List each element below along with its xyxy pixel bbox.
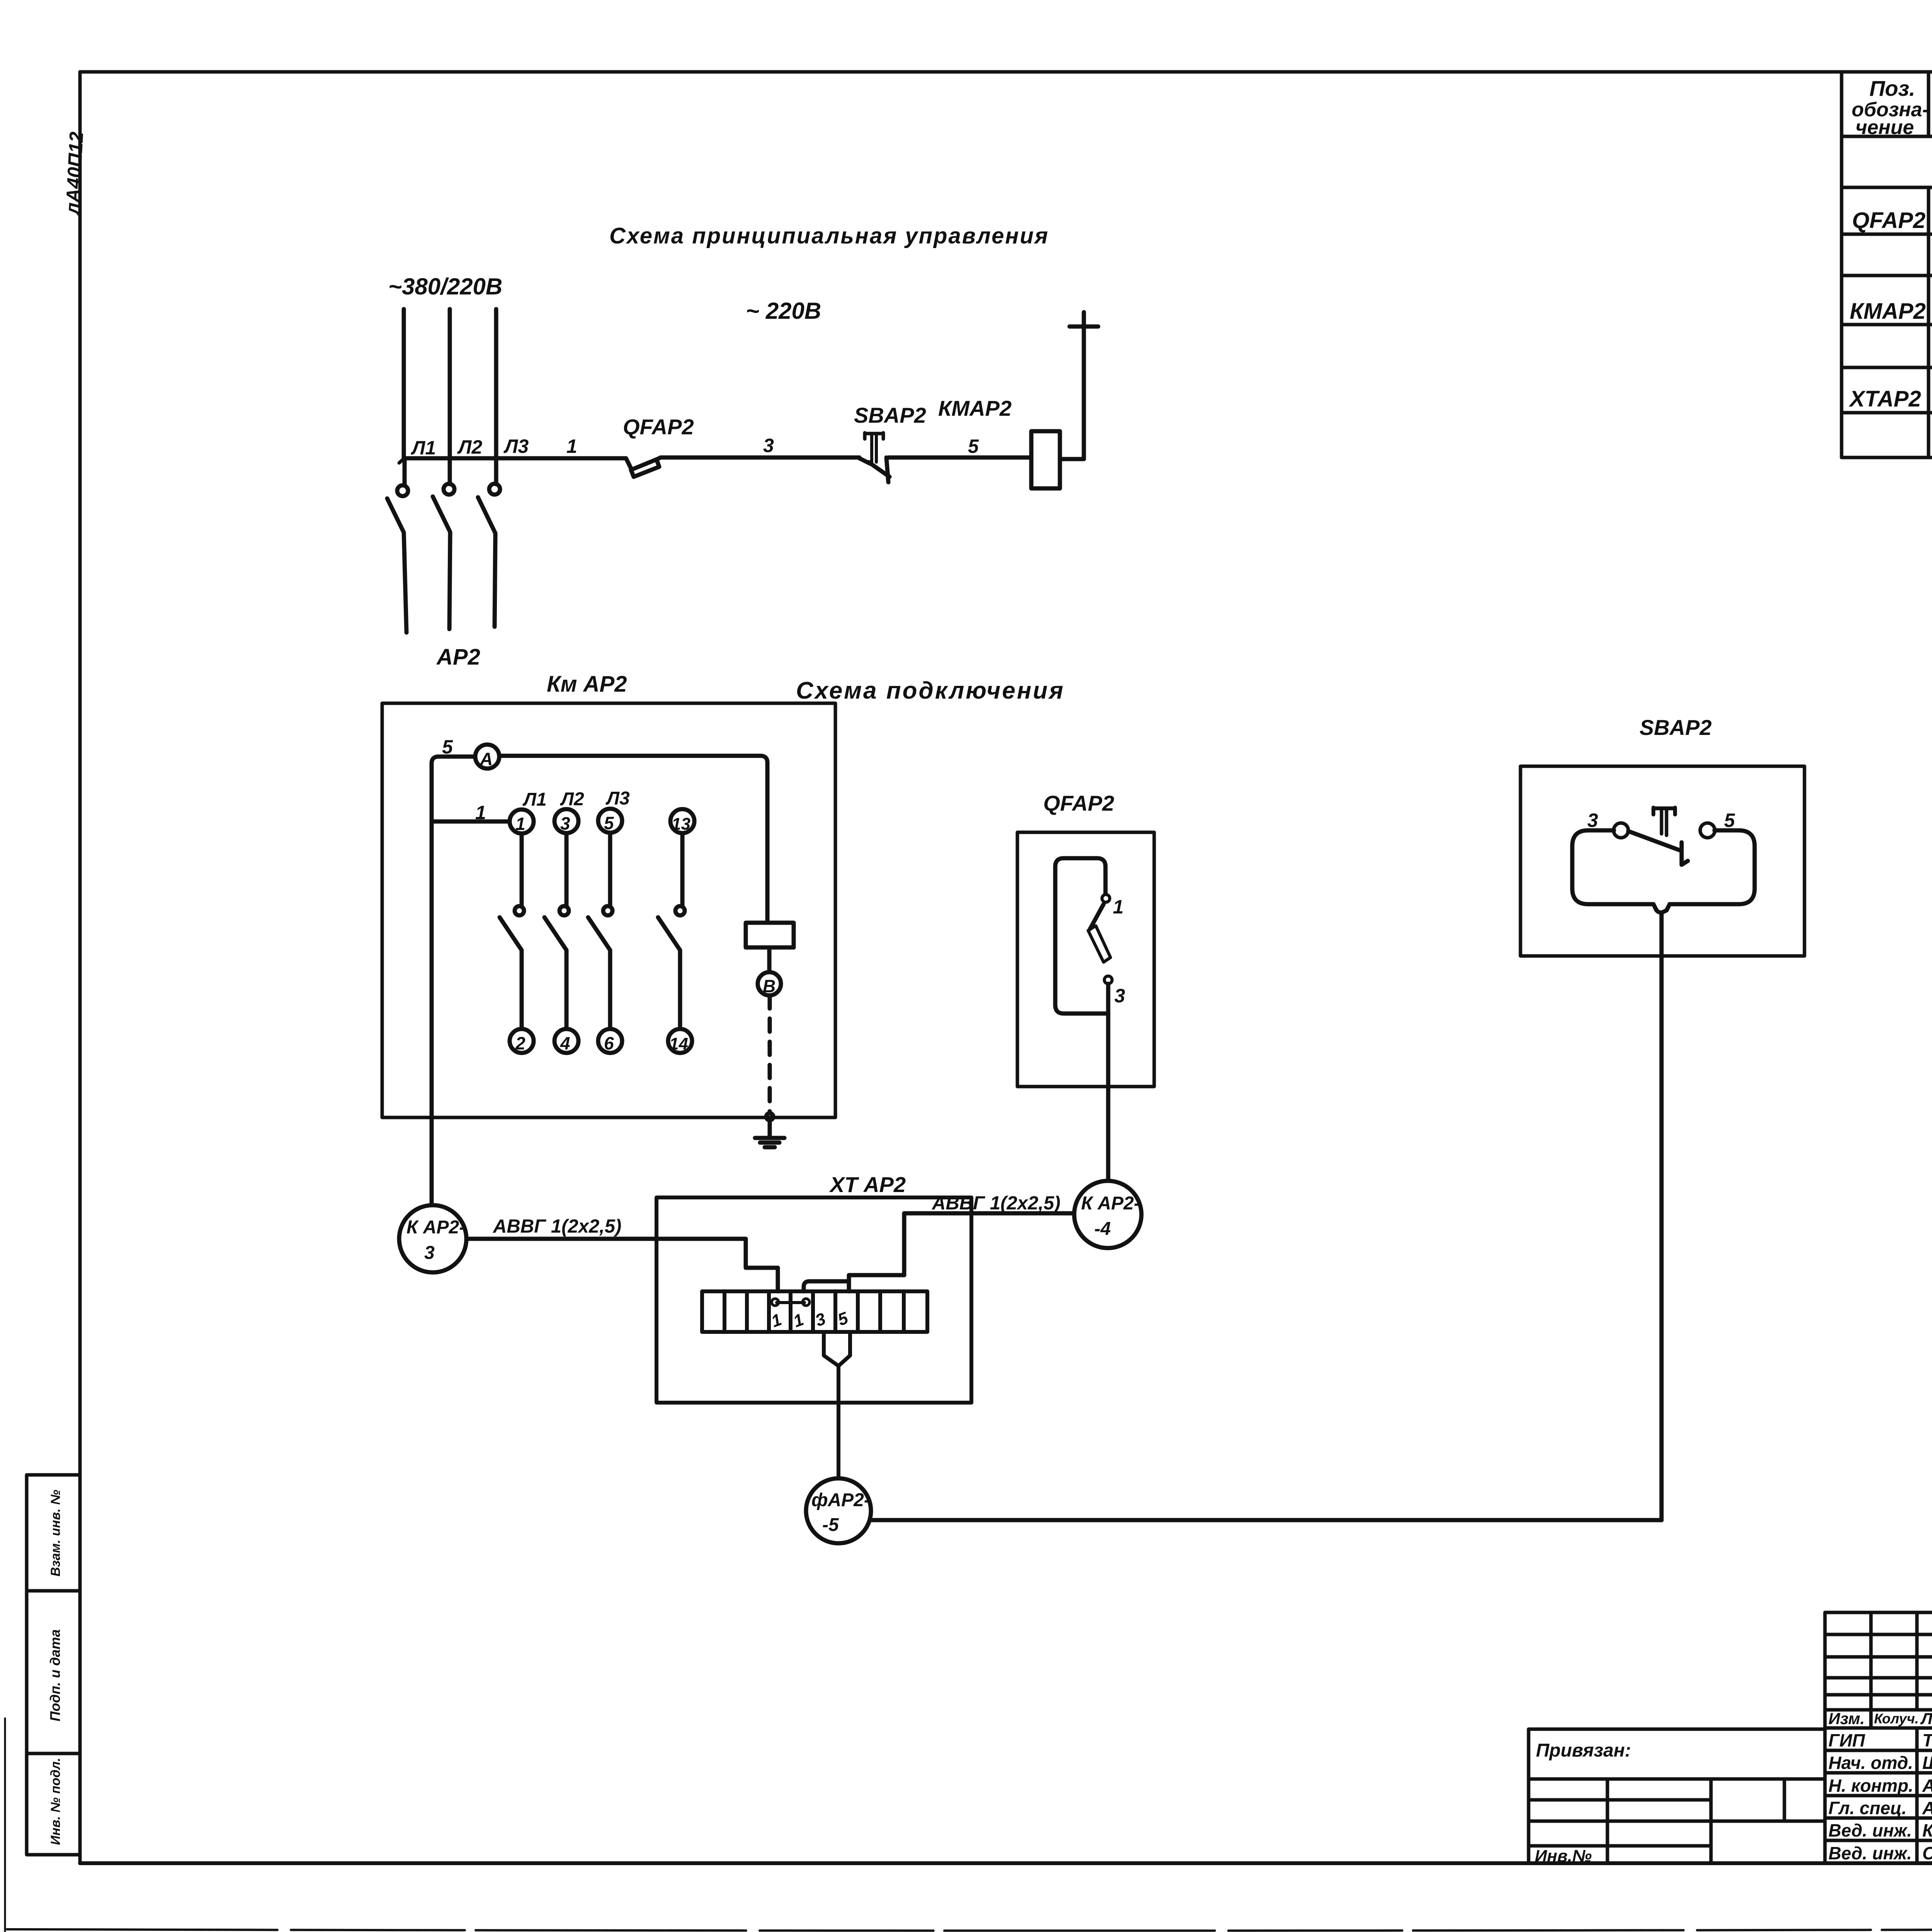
svg-text:Вед. инж.: Вед. инж. <box>1828 1843 1912 1863</box>
node terminal B <box>758 972 781 995</box>
breaker AP2 blade 2 <box>433 497 450 629</box>
node terminal 5 <box>598 809 622 833</box>
svg-text:Л3: Л3 <box>605 788 630 809</box>
svg-text:Афоника: Афоника <box>1922 1776 1932 1796</box>
svg-text:Км АР2: Км АР2 <box>547 672 627 697</box>
contactor box KM AP2 <box>382 703 835 1117</box>
svg-text:Гл. спец.: Гл. спец. <box>1828 1798 1906 1818</box>
wire inner loop <box>1055 858 1107 1014</box>
coil KM AP2 <box>746 923 794 947</box>
node terminal 1 <box>510 810 534 833</box>
svg-text:Вед. инж.: Вед. инж. <box>1828 1820 1912 1840</box>
svg-text:1: 1 <box>791 1310 806 1331</box>
svg-text:QFAP2: QFAP2 <box>1043 791 1114 815</box>
svg-text:1: 1 <box>566 435 577 457</box>
svg-text:Л3: Л3 <box>503 435 529 457</box>
wire table horizontals <box>1842 135 1932 138</box>
svg-text:Взам. инв. №: Взам. инв. № <box>48 1490 63 1577</box>
svg-text:Шунский: Шунский <box>1922 1753 1932 1773</box>
svg-text:QFAP2: QFAP2 <box>1852 208 1925 233</box>
svg-text:Поз.: Поз. <box>1869 76 1915 100</box>
svg-text:3: 3 <box>424 1243 435 1263</box>
svg-text:АВВГ 1(2х2,5): АВВГ 1(2х2,5) <box>493 1216 621 1237</box>
terminal strip <box>702 1291 927 1332</box>
svg-text:К АР2-: К АР2- <box>406 1217 465 1238</box>
svg-text:АВВГ 1(2х2,5): АВВГ 1(2х2,5) <box>932 1193 1060 1214</box>
node terminal 4 <box>554 1029 578 1053</box>
svg-text:1: 1 <box>475 802 486 823</box>
svg-text:4: 4 <box>560 1033 570 1053</box>
svg-text:Сенашко: Сенашко <box>1922 1843 1932 1863</box>
SCHEMATIC 1 <box>387 223 1098 670</box>
svg-text:В: В <box>763 976 776 996</box>
svg-text:Схема подключения: Схема подключения <box>796 677 1065 704</box>
wire SB drop <box>1660 913 1664 1520</box>
circuit breaker QFAP2 symbol <box>626 458 631 469</box>
svg-text:Изм.: Изм. <box>1828 1709 1865 1728</box>
node plug funnel <box>824 1332 850 1366</box>
wire right riser <box>1082 327 1086 459</box>
CABLE RIGHT <box>849 1181 1141 1291</box>
node terminal 14 <box>668 1029 692 1053</box>
button contact blade <box>1628 831 1679 850</box>
node junction on box edge <box>766 1113 773 1120</box>
svg-text:КМАР2: КМАР2 <box>938 396 1012 420</box>
button plunger <box>1653 808 1675 815</box>
wire frame top border <box>80 70 1932 74</box>
wire segment 5 <box>889 456 1031 460</box>
contact pole 1 <box>520 833 524 906</box>
svg-text:~380/220В: ~380/220В <box>388 274 502 299</box>
SBAP2 BOX <box>1520 715 1804 1520</box>
svg-text:ГИП: ГИП <box>1828 1730 1865 1750</box>
svg-text:5: 5 <box>835 1308 850 1330</box>
svg-text:1: 1 <box>769 1310 784 1331</box>
node cable marker K AP2-4 <box>1074 1181 1141 1248</box>
svg-text:А: А <box>480 749 493 769</box>
node terminal 6 <box>598 1029 622 1053</box>
node jumper link <box>777 1301 804 1304</box>
svg-text:Схема принципиальная управле: Схема принципиальная управления <box>609 223 1049 248</box>
wire segment 3 <box>661 456 859 460</box>
XT AP2 BOX <box>656 1172 971 1478</box>
button box SBAP2 <box>1520 766 1804 956</box>
CABLE BOTTOM <box>806 1478 1662 1543</box>
node paper edge bottom <box>7 1927 1932 1931</box>
svg-text:3: 3 <box>763 435 774 456</box>
node terminal 3 <box>1104 976 1112 984</box>
svg-text:Л1: Л1 <box>411 437 436 459</box>
svg-text:Подп. и дата: Подп. и дата <box>47 1629 63 1721</box>
node terminal 2 <box>510 1029 534 1053</box>
node paper edge left <box>4 1718 6 1932</box>
COMPONENT TABLE top-right <box>1842 72 1932 457</box>
svg-text:фАР2-: фАР2- <box>811 1490 870 1510</box>
svg-text:SBAP2: SBAP2 <box>1639 715 1712 740</box>
node terminal bar top <box>1070 312 1098 327</box>
svg-text:Инв.№: Инв.№ <box>1535 1847 1592 1866</box>
svg-text:Л1: Л1 <box>522 789 547 810</box>
svg-text:5: 5 <box>1724 810 1735 831</box>
contactor coil KMAP2 <box>1031 431 1060 488</box>
contact pole 4 <box>680 833 685 906</box>
svg-text:Афонина: Афонина <box>1922 1798 1932 1818</box>
svg-text:-4: -4 <box>1094 1219 1111 1239</box>
wire header row bottom <box>1825 1726 1932 1730</box>
svg-text:QFAP2: QFAP2 <box>623 415 694 439</box>
wire K AP2-4 to XT <box>849 1213 1074 1291</box>
svg-text:6: 6 <box>604 1033 614 1053</box>
wire extension box <box>1529 1729 1825 1863</box>
wire notch to drop <box>1653 904 1670 913</box>
wire phase L1 <box>404 309 405 484</box>
svg-text:Н. контр.: Н. контр. <box>1828 1776 1913 1796</box>
QFAP2 BOX <box>1017 791 1154 1180</box>
terminal box XT AP2 <box>656 1197 971 1403</box>
breaker blade <box>1090 904 1104 929</box>
wire title block outline <box>1825 1612 1932 1863</box>
wire phase L3 <box>494 309 498 484</box>
wire margin boxes <box>27 1475 80 1855</box>
svg-text:Инв. № подл.: Инв. № подл. <box>48 1758 63 1845</box>
svg-text:1: 1 <box>515 814 526 834</box>
svg-text:14: 14 <box>669 1034 688 1053</box>
svg-text:ХТ АР2: ХТ АР2 <box>829 1172 906 1197</box>
wire A to coil <box>499 756 767 923</box>
wire revision grid <box>1825 1634 1932 1710</box>
wire frame bottom border <box>80 1861 1932 1865</box>
svg-text:Л2: Л2 <box>457 436 482 458</box>
wire 3 down to K AP2-4 <box>1106 984 1111 1180</box>
wire funnel down <box>837 1366 840 1478</box>
svg-text:5: 5 <box>604 813 614 833</box>
node terminal A <box>475 745 499 769</box>
breaker box QFAP2 <box>1017 832 1154 1087</box>
svg-text:13: 13 <box>672 815 690 833</box>
wire phase L2 <box>448 309 452 484</box>
wire coil to B <box>767 947 772 972</box>
svg-text:лА40П12: лА40П12 <box>61 131 87 216</box>
SCHEMATIC 2 <box>382 672 1065 1205</box>
svg-text:ХТАР2: ХТАР2 <box>1849 386 1921 412</box>
breaker AP2 blade 1 <box>387 498 406 633</box>
svg-text:Лист: Лист <box>1920 1709 1932 1728</box>
wire name rows <box>1825 1750 1932 1840</box>
wire tap 1 <box>432 820 510 824</box>
svg-text:Косырев: Косырев <box>1922 1820 1932 1840</box>
svg-text:К АР2-: К АР2- <box>1081 1193 1140 1214</box>
breaker AP2 blade 3 <box>478 497 495 627</box>
node terminal 3 <box>1614 823 1628 838</box>
wire inner jog <box>804 1281 849 1291</box>
pushbutton SBAP2 symbol <box>859 458 870 464</box>
wire coil to terminal <box>1060 457 1084 461</box>
wire inner loop <box>1572 830 1755 904</box>
svg-text:-5: -5 <box>822 1515 839 1535</box>
node terminal 3 <box>554 809 578 833</box>
svg-text:5: 5 <box>442 736 453 758</box>
svg-text:Л2: Л2 <box>560 789 584 810</box>
wire segment L1 to QF <box>404 456 626 461</box>
svg-text:SBAP2: SBAP2 <box>854 403 926 427</box>
TITLE BLOCK <box>1825 1612 1932 1863</box>
svg-text:3: 3 <box>1587 810 1598 831</box>
ground <box>755 1120 784 1147</box>
svg-text:1: 1 <box>1113 896 1124 918</box>
wire K AP2-3 to XT <box>466 1239 778 1291</box>
svg-text:2: 2 <box>515 1033 526 1053</box>
node cable marker fAP2-5 <box>806 1478 871 1543</box>
svg-text:3: 3 <box>813 1309 828 1330</box>
node terminal 13 <box>670 809 694 833</box>
CABLE LEFT <box>399 1205 849 1291</box>
svg-text:Нач. отд.: Нач. отд. <box>1828 1753 1913 1773</box>
svg-text:чение: чение <box>1855 116 1914 139</box>
svg-text:~ 220В: ~ 220В <box>746 298 821 324</box>
breaker AP2 pole contacts <box>397 485 408 496</box>
svg-text:3: 3 <box>560 813 570 833</box>
node terminal 5 <box>1700 823 1715 838</box>
PRIVYAZAN EXTENSION <box>1529 1729 1825 1866</box>
wire table verticals <box>1840 72 1844 457</box>
svg-text:АР2: АР2 <box>436 645 480 670</box>
contact pole 2 <box>565 833 569 906</box>
LEFT MARGIN CELLS <box>27 131 87 1855</box>
wire fAP2-5 to SB drop <box>871 1518 1662 1522</box>
wire riser 5 <box>432 757 475 1205</box>
svg-text:Колуч.: Колуч. <box>1874 1711 1919 1726</box>
node terminal 1 <box>1102 895 1110 902</box>
wire frame left border <box>78 72 82 1863</box>
wire B to ground dashed <box>768 995 772 1113</box>
svg-text:Привязан:: Привязан: <box>1536 1740 1631 1761</box>
svg-text:КМАР2: КМАР2 <box>1850 299 1926 324</box>
node cable marker K AP2-3 <box>399 1205 466 1272</box>
contact pole 3 <box>608 833 612 906</box>
svg-text:Трушин: Трушин <box>1922 1730 1932 1750</box>
svg-text:3: 3 <box>1114 985 1125 1007</box>
svg-text:5: 5 <box>968 435 979 457</box>
